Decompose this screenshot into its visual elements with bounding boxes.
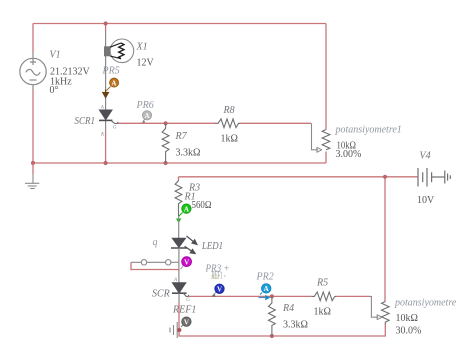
svg-text:1kΩ: 1kΩ [314,307,331,318]
svg-text:X1: X1 [136,42,148,53]
junction V4 branch [383,175,387,179]
junction R4 bottom [270,334,274,338]
wire lamp to SCR1 grey pin [105,31,107,110]
wire switch red loop [131,262,180,269]
junction R7 top [164,121,168,125]
wire left vertical lower red [32,90,34,163]
svg-text:REF1 -: REF1 - [211,271,225,282]
wire top horizontal [33,23,326,25]
svg-text:V: V [184,318,189,326]
wire right vertical to pot1 [325,24,327,130]
junction top lamp [104,21,108,25]
resistor R7 [162,123,169,163]
wire gate2 to R5 [189,295,313,297]
svg-text:potansiyometre: potansiyometre [394,298,457,309]
wire SCR1 cathode to bottom [105,132,107,163]
svg-text:R7: R7 [175,131,188,142]
svg-text:560Ω: 560Ω [192,200,212,211]
wire gate1 to R7 junction [118,122,216,124]
junction ground REF1 [177,328,181,332]
pot2 wiper arrow [377,315,382,320]
wire LED to SCR vertical [178,248,180,283]
svg-text:potansiyometre1: potansiyometre1 [335,125,402,136]
AC source V1 [20,58,46,84]
ground REF1 rotated [170,322,177,338]
wire SCR1 cathode pin [105,121,107,133]
svg-text:3.3kΩ: 3.3kΩ [283,320,308,331]
svg-text:3.3kΩ: 3.3kΩ [176,148,201,159]
resistor R3 R1 [175,180,182,216]
wire pot1 bottom leg [325,152,327,164]
svg-text:q: q [153,237,158,248]
junction left bottom [31,161,35,165]
svg-text:SCR1: SCR1 [75,116,96,127]
svg-text:R8: R8 [223,105,235,116]
wire R5 to pot2 wiper [337,295,370,297]
thyristor SCR REF1 [172,278,190,303]
junction SCR1 bottom [104,161,108,165]
wire V1 top pin grey [32,52,34,59]
probe PR5 [103,78,119,98]
battery V4 [418,168,450,187]
svg-text:12V: 12V [137,58,155,69]
probe magenta V [181,257,192,270]
probe PR2 blue A [259,284,271,301]
potentiometer2 [382,302,390,325]
junction R7 bottom [164,161,168,165]
svg-text:REF1: REF1 [172,305,196,316]
wire ground stub red [32,163,34,174]
wire left vertical upper [32,24,34,53]
svg-text:V: V [217,286,222,294]
svg-text:LED1: LED1 [201,241,223,252]
svg-text:A: A [184,205,189,213]
probe PR3 blue V [211,284,224,297]
svg-text:V4: V4 [420,151,431,162]
svg-text:30.0%: 30.0% [396,326,422,337]
svg-text:A: A [144,112,149,120]
svg-text:PR6: PR6 [136,100,154,111]
svg-text:10kΩ: 10kΩ [396,313,418,324]
wire SCR cathode down [178,293,180,302]
LED LED1 [171,236,197,254]
svg-text:V: V [184,259,189,267]
svg-text:K: K [100,133,105,138]
svg-text:A: A [264,285,269,293]
wire pot2 wiper grey [370,296,379,317]
svg-text:A: A [111,79,116,87]
wire R3 top stub [178,177,180,180]
pot1 wiper arrowhead [317,147,322,152]
wire lamp branch red stub [105,24,107,32]
svg-text:0°: 0° [50,85,59,96]
svg-text:3.00%: 3.00% [336,149,362,160]
svg-text:10V: 10V [417,195,435,206]
ground left [25,174,39,189]
junction R4 top [270,294,274,298]
svg-text:G: G [113,126,117,131]
switch connector line [131,260,179,265]
svg-text:PR5: PR5 [102,66,120,77]
resistor R8 [216,119,241,128]
svg-text:R5: R5 [316,278,328,289]
wire SCR to bottom corner [179,302,385,336]
probe green A [176,204,191,223]
wire pot1 wiper grey [311,123,318,150]
resistor R5 [312,292,337,301]
wire bottom-circuit top horizontal [179,176,418,178]
probe grey V REF1 [181,317,191,327]
thyristor SCR1 [99,106,118,138]
wire R1 to LED grey [178,216,180,238]
wire V4 branch vertical [384,177,386,302]
potentiometer1 [322,130,330,150]
wire left vertical lower [32,85,34,91]
svg-text:PR2: PR2 [256,272,274,283]
lamp X1 [104,39,134,63]
svg-text:SCR: SCR [152,289,170,300]
svg-text:V1: V1 [50,50,61,61]
label REF1 - small [211,275,220,279]
wire R8 right to pot1 wiper [241,122,312,124]
probe PR6 [142,111,152,123]
svg-text:R4: R4 [282,303,294,314]
wire bottom horizontal of top loop [33,162,326,164]
resistor R4 [269,296,276,336]
svg-text:1kΩ: 1kΩ [221,134,238,145]
svg-text:G: G [186,298,190,303]
